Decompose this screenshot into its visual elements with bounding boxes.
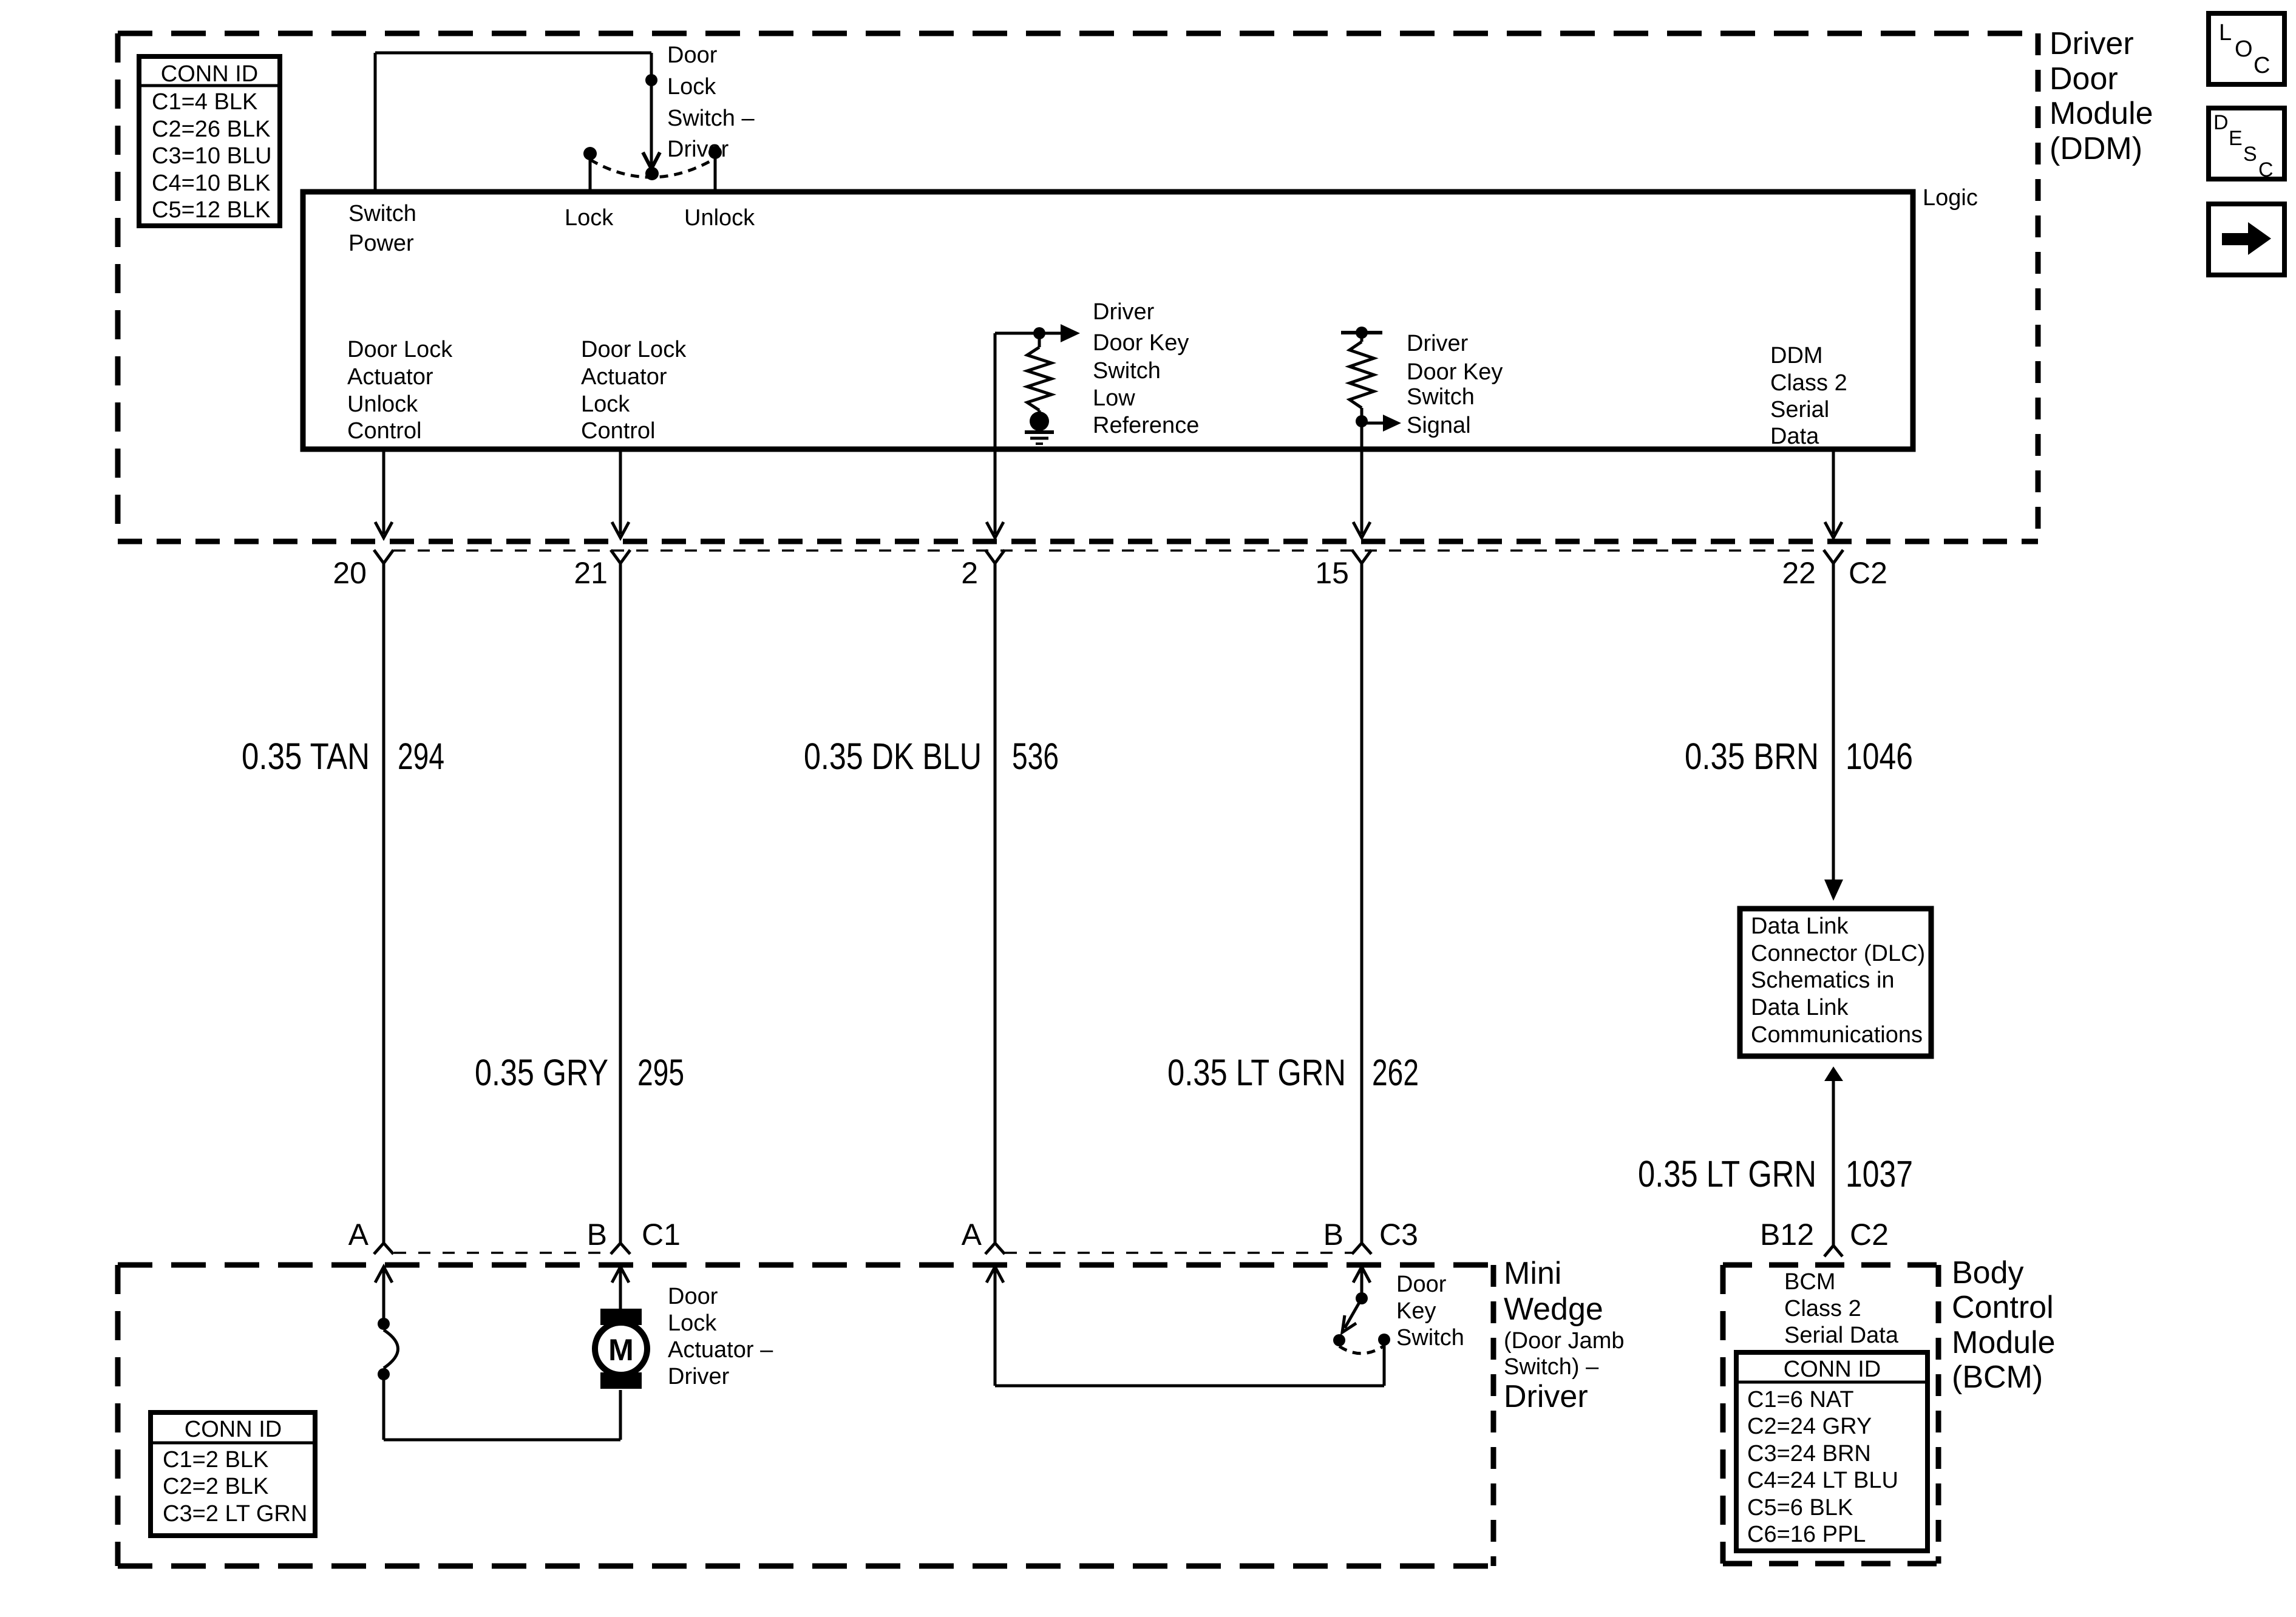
connector fork terminal A1 [374, 1243, 393, 1254]
wire label: 0.35 DK BLU 536 [804, 736, 1059, 777]
door lock switch contact dot (Unlock) [708, 146, 722, 159]
connector fork pin 21 [611, 550, 630, 563]
svg-text:15: 15 [1315, 556, 1349, 590]
arrowhead terminal A1 (into Mini Wedge) [375, 1267, 392, 1283]
svg-text:Actuator: Actuator [581, 364, 667, 390]
junction dot signal bottom [1356, 415, 1368, 427]
svg-text:C1=2 BLK: C1=2 BLK [163, 1447, 268, 1473]
svg-text:Data: Data [1770, 424, 1819, 449]
svg-text:Switch: Switch [1407, 384, 1475, 410]
pin label: DDM Class 2 Serial Data [1770, 343, 1847, 449]
svg-text:Power: Power [348, 231, 414, 256]
logic box of DDM [303, 192, 1913, 449]
connector fork B12 C2 (BCM) [1824, 1246, 1843, 1256]
arrowhead pin 22 [1825, 522, 1842, 538]
svg-text:Connector (DLC): Connector (DLC) [1751, 941, 1925, 966]
svg-text:Switch: Switch [1093, 358, 1161, 384]
arrow nav box [2209, 204, 2284, 275]
svg-text:Lock: Lock [667, 74, 716, 100]
wire 295 (pin21 to B) [619, 563, 622, 1243]
svg-text:Serial: Serial [1770, 397, 1829, 422]
svg-text:Door Key: Door Key [1093, 330, 1189, 356]
svg-text:DDM: DDM [1770, 343, 1823, 368]
svg-text:Actuator: Actuator [347, 364, 433, 390]
svg-text:262: 262 [1372, 1052, 1419, 1093]
wire: terminal A down to jamb switch [382, 1267, 385, 1324]
svg-text:(BCM): (BCM) [1952, 1360, 2043, 1395]
table: CONN ID (DDM) [139, 56, 280, 226]
svg-text:0.35 BRN: 0.35 BRN [1685, 736, 1819, 777]
arrowhead pin 2 [987, 522, 1004, 538]
key switch contact dot left [1333, 1334, 1345, 1346]
connector fork terminal B2 [1352, 1243, 1371, 1254]
svg-text:Serial Data: Serial Data [1784, 1323, 1899, 1348]
svg-text:Class 2: Class 2 [1784, 1296, 1861, 1321]
svg-text:C3=2 LT GRN: C3=2 LT GRN [163, 1501, 307, 1527]
svg-text:Unlock: Unlock [347, 392, 418, 417]
svg-text:Wedge: Wedge [1504, 1292, 1603, 1327]
svg-text:22: 22 [1782, 556, 1816, 590]
svg-text:Switch: Switch [1396, 1325, 1464, 1351]
table: CONN ID (Mini Wedge) [151, 1412, 315, 1536]
module box Mini Wedge (Door Jamb Switch) dashed border [118, 1265, 1493, 1566]
wire: key switch low reference internal [995, 333, 1039, 449]
LOC nav box [2209, 13, 2284, 84]
wire: signal down to pin 15 [1360, 425, 1364, 449]
svg-text:C: C [2258, 158, 2274, 181]
svg-text:B12: B12 [1760, 1218, 1814, 1252]
connector fork pin 20 [374, 550, 393, 563]
wire: pin 2 exit [994, 449, 997, 534]
jamb switch contact dot upper [378, 1318, 390, 1330]
label: Driver Door Key Switch Low Reference [1093, 299, 1199, 438]
svg-text:C: C [2254, 53, 2270, 78]
door lock switch dashed travel arc [590, 158, 715, 177]
svg-text:C2: C2 [1850, 1218, 1889, 1252]
svg-text:Switch) –: Switch) – [1504, 1354, 1599, 1380]
svg-text:D: D [2213, 111, 2229, 134]
key switch pivot dot [1356, 1292, 1368, 1304]
key switch dashed travel arc [1339, 1346, 1384, 1354]
svg-text:C3=24 BRN: C3=24 BRN [1747, 1441, 1871, 1466]
internal signal arrow (signal) [1362, 415, 1401, 432]
svg-text:Driver: Driver [1407, 331, 1469, 356]
svg-text:C3=10 BLU: C3=10 BLU [152, 143, 272, 169]
svg-text:Lock: Lock [581, 392, 630, 417]
junction dot low reference [1033, 327, 1045, 339]
svg-text:295: 295 [637, 1052, 684, 1093]
thin dashed connector line (C1 segment) [394, 1252, 611, 1254]
jamb switch contact dot lower [378, 1368, 390, 1380]
wire: pin 15 exit [1360, 449, 1364, 534]
svg-text:0.35 LT GRN: 0.35 LT GRN [1638, 1153, 1816, 1195]
svg-text:B: B [1323, 1218, 1343, 1252]
arrowhead terminal A2 (into Mini Wedge) [987, 1267, 1004, 1283]
svg-text:Low: Low [1093, 385, 1135, 411]
wire label: 0.35 LT GRN 1037 [1638, 1153, 1913, 1195]
wire label: 0.35 GRY 295 [475, 1052, 684, 1093]
svg-text:C4=24 LT BLU: C4=24 LT BLU [1747, 1468, 1898, 1493]
arrowhead into DLC [1824, 880, 1843, 901]
pin label: Switch Power [348, 201, 416, 256]
pin number labels DDM C2 [333, 556, 1887, 590]
wire label: 0.35 BRN 1046 [1685, 736, 1913, 777]
label: Door Key Switch [1396, 1272, 1464, 1351]
internal signal arrow (low reference) [1039, 324, 1080, 342]
label: Body Control Module (BCM) [1952, 1255, 2056, 1395]
svg-text:0.35 GRY: 0.35 GRY [475, 1052, 608, 1093]
wire: key switch return to terminal A [995, 1344, 1384, 1386]
connector fork terminal A2 [985, 1243, 1005, 1254]
svg-text:Key: Key [1396, 1298, 1436, 1324]
key switch blade with arrowhead [1342, 1298, 1362, 1332]
junction on door lock switch wire [645, 74, 657, 86]
svg-text:2: 2 [961, 556, 978, 590]
wire label: 0.35 TAN 294 [242, 736, 444, 777]
box: Data Link Connector (DLC) [1740, 909, 1931, 1056]
svg-text:1046: 1046 [1846, 736, 1913, 777]
wire 1046 (pin22 to DLC) [1832, 563, 1835, 881]
svg-text:C5=12 BLK: C5=12 BLK [152, 197, 270, 223]
label: Door Lock Actuator - Driver [668, 1284, 773, 1389]
svg-text:CONN ID: CONN ID [1784, 1357, 1881, 1382]
svg-text:E: E [2229, 127, 2243, 150]
svg-text:S: S [2243, 143, 2257, 166]
module box BCM (Body Control Module) dashed border [1723, 1265, 1938, 1564]
svg-text:Driver: Driver [1504, 1379, 1588, 1414]
svg-text:Schematics in: Schematics in [1751, 968, 1895, 993]
wire: Unlock contact stub [714, 152, 717, 192]
svg-text:A: A [348, 1218, 369, 1252]
key switch contact dot right [1378, 1334, 1390, 1346]
svg-text:C2=2 BLK: C2=2 BLK [163, 1474, 268, 1499]
svg-text:Communications: Communications [1751, 1022, 1923, 1048]
label: Door Lock Switch - Driver [667, 42, 755, 162]
svg-text:Lock: Lock [668, 1310, 717, 1336]
svg-text:Switch: Switch [348, 201, 416, 226]
svg-text:Body: Body [1952, 1255, 2024, 1290]
wire 1037 (BCM to DLC) [1832, 1081, 1835, 1246]
pin label: Door Lock Actuator Lock Control [581, 337, 687, 444]
svg-text:Class 2: Class 2 [1770, 370, 1847, 396]
svg-text:C2=24 GRY: C2=24 GRY [1747, 1414, 1872, 1439]
svg-text:Driver: Driver [668, 1364, 730, 1389]
svg-text:C4=10 BLK: C4=10 BLK [152, 171, 270, 196]
svg-text:Switch –: Switch – [667, 106, 755, 131]
wire: jamb switch to motor return [384, 1374, 620, 1440]
ground (internal) [1025, 412, 1054, 444]
svg-text:Data Link: Data Link [1751, 995, 1849, 1020]
wire: switch power feed [375, 53, 651, 192]
arrowhead of door lock switch actuator [643, 152, 660, 169]
DESC nav box [2209, 108, 2284, 181]
svg-text:536: 536 [1012, 736, 1059, 777]
svg-text:Door: Door [668, 1284, 718, 1309]
svg-text:Door: Door [2050, 61, 2118, 97]
svg-text:0.35 TAN: 0.35 TAN [242, 736, 370, 777]
connector fork pin 22 [1824, 550, 1843, 563]
svg-text:Driver: Driver [667, 137, 729, 162]
svg-text:Reference: Reference [1093, 413, 1199, 438]
table: CONN ID (BCM) [1736, 1352, 1927, 1551]
arrowhead pin 15 [1353, 522, 1370, 538]
svg-text:Actuator –: Actuator – [668, 1337, 773, 1363]
svg-text:CONN ID: CONN ID [185, 1417, 282, 1442]
svg-text:Door: Door [1396, 1272, 1447, 1297]
arrowhead out of DLC (up) [1824, 1066, 1843, 1081]
svg-text:C1=6 NAT: C1=6 NAT [1747, 1387, 1854, 1412]
svg-text:B: B [587, 1218, 607, 1252]
pin label: BCM Class 2 Serial Data [1784, 1269, 1899, 1348]
module box DDM (Driver Door Module) dashed border [118, 33, 2038, 541]
svg-text:O: O [2235, 36, 2253, 62]
svg-text:C6=16 PPL: C6=16 PPL [1747, 1522, 1866, 1547]
svg-text:Data Link: Data Link [1751, 914, 1849, 939]
svg-text:21: 21 [574, 556, 608, 590]
pin label: Door Lock Actuator Unlock Control [347, 337, 453, 444]
svg-text:Logic: Logic [1923, 185, 1978, 211]
svg-text:0.35 DK BLU: 0.35 DK BLU [804, 736, 982, 777]
wire: pin 20 exit [382, 449, 385, 534]
resistor R-signal [1350, 333, 1374, 425]
wire: terminal B(C3) down to key switch [1360, 1267, 1364, 1298]
svg-text:Driver: Driver [2050, 26, 2134, 61]
wire 536 (pin2 to A) [994, 563, 997, 1243]
svg-text:C2=26 BLK: C2=26 BLK [152, 117, 270, 142]
svg-text:C1=4 BLK: C1=4 BLK [152, 89, 257, 115]
svg-text:20: 20 [333, 556, 367, 590]
svg-text:A: A [962, 1218, 982, 1252]
arrowhead terminal B2 (into Mini Wedge) [1353, 1267, 1370, 1283]
label: Mini Wedge (Door Jamb Switch) - Driver [1504, 1256, 1625, 1414]
junction dot signal top [1356, 327, 1368, 339]
terminal labels A B C1 A B C3 [348, 1218, 1418, 1252]
resistor R-lowref [1027, 333, 1051, 418]
svg-text:Signal: Signal [1407, 413, 1471, 438]
thin dashed connector line C2 (DDM bottom) [393, 549, 1824, 552]
label: Driver Door Module (DDM) [2050, 26, 2153, 166]
svg-text:0.35 LT GRN: 0.35 LT GRN [1167, 1052, 1346, 1093]
svg-text:M: M [608, 1333, 634, 1367]
svg-text:C3: C3 [1379, 1218, 1418, 1252]
svg-text:BCM: BCM [1784, 1269, 1835, 1295]
svg-text:Control: Control [347, 418, 422, 444]
svg-text:C2: C2 [1849, 556, 1887, 590]
svg-text:Control: Control [581, 418, 656, 444]
svg-text:C1: C1 [642, 1218, 681, 1252]
wire label: 0.35 LT GRN 262 [1167, 1052, 1419, 1093]
svg-text:Door Lock: Door Lock [581, 337, 687, 362]
svg-text:(DDM): (DDM) [2050, 131, 2142, 166]
wire 262 (pin15 to B) [1360, 563, 1364, 1243]
pin labels B12 C2 [1760, 1218, 1889, 1252]
jamb switch blade arc [384, 1330, 398, 1368]
thin dashed connector line (C3 segment) [1005, 1252, 1352, 1254]
arrowhead pin 21 [612, 522, 629, 538]
svg-text:Module: Module [2050, 96, 2153, 131]
wire 294 (pin20 to A) [382, 563, 385, 1243]
arrowhead pin 20 [375, 522, 392, 538]
door lock switch common pole dot [645, 167, 659, 180]
svg-text:CONN ID: CONN ID [161, 61, 258, 87]
wire: pin 21 exit [619, 449, 622, 534]
svg-text:1037: 1037 [1846, 1153, 1913, 1195]
motor M (Door Lock Actuator - Driver) [595, 1309, 647, 1389]
connector fork pin 2 [985, 550, 1005, 563]
svg-text:Unlock: Unlock [684, 205, 755, 231]
wire: terminal A(C3 side) down [994, 1267, 997, 1386]
svg-text:(Door Jamb: (Door Jamb [1504, 1328, 1625, 1354]
connector fork pin 15 [1352, 550, 1371, 563]
svg-text:Door Key: Door Key [1407, 359, 1503, 385]
wire: pin 22 exit [1832, 449, 1835, 534]
connector fork terminal B1 [611, 1243, 630, 1254]
svg-text:Module: Module [1952, 1325, 2056, 1360]
svg-text:Driver: Driver [1093, 299, 1155, 325]
svg-text:L: L [2219, 20, 2232, 46]
label: Driver Door Key Switch Signal [1407, 331, 1503, 438]
svg-text:Control: Control [1952, 1290, 2054, 1325]
door lock switch contact dot (Lock) [583, 147, 597, 160]
svg-text:294: 294 [398, 736, 444, 777]
svg-text:Door Lock: Door Lock [347, 337, 453, 362]
wire: terminal B down to motor [619, 1267, 622, 1314]
svg-text:Mini: Mini [1504, 1256, 1561, 1291]
svg-text:C5=6 BLK: C5=6 BLK [1747, 1495, 1853, 1520]
arrowhead terminal B1 (into Mini Wedge) [612, 1267, 629, 1283]
wire: Lock contact stub [589, 154, 592, 192]
svg-text:Lock: Lock [565, 205, 614, 231]
resistor R-signal pull-up tick [1341, 331, 1382, 334]
svg-text:Door: Door [667, 42, 718, 68]
